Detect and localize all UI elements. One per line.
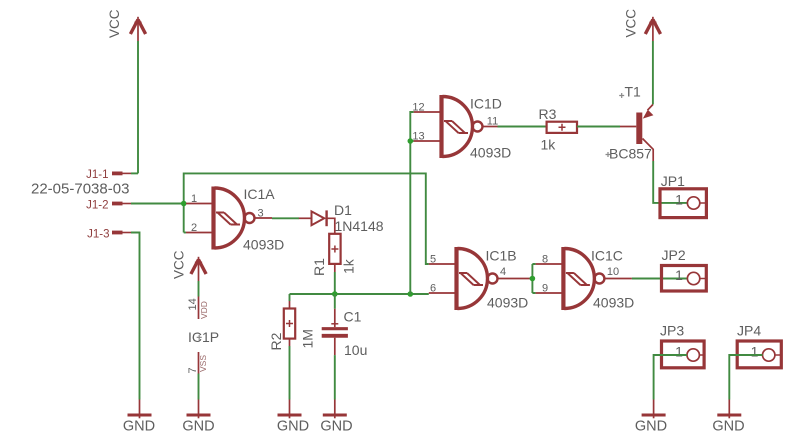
svg-text:GND: GND — [712, 419, 744, 435]
svg-text:1: 1 — [675, 267, 683, 283]
svg-text:T1: T1 — [625, 84, 642, 100]
wire node rail (R2/C1/IC1D/IC1B pin6) — [290, 293, 429, 295]
svg-text:JP2: JP2 — [662, 247, 686, 263]
svg-text:IC1P: IC1P — [188, 329, 219, 345]
wire R3 to T1 base — [577, 126, 620, 128]
svg-text:R3: R3 — [539, 106, 557, 122]
svg-text:GND: GND — [277, 419, 309, 435]
ground (JP3) — [635, 400, 667, 435]
connector JP3 — [660, 323, 705, 368]
wire R2 to GND — [289, 346, 291, 400]
svg-text:GND: GND — [182, 419, 214, 435]
ground (J1-3) — [123, 400, 155, 435]
wire VCC to IC1P pin 14 — [198, 281, 200, 297]
node junction at IC1D column — [408, 291, 414, 297]
op-amp? no: NAND gate IC1A — [186, 186, 284, 253]
svg-text:14: 14 — [187, 298, 199, 310]
node junction at C1/R1 — [332, 291, 338, 297]
wire JP4 to GND — [729, 355, 762, 400]
wire feedback rail to IC1B pin 5 — [184, 173, 429, 264]
svg-text:5: 5 — [430, 254, 436, 266]
wire C1 to GND — [334, 355, 336, 399]
wire IC1B out to IC1C inputs — [530, 264, 536, 293]
wire IC1C out to JP2 — [632, 278, 688, 280]
svg-text:13: 13 — [412, 131, 424, 143]
svg-text:J1-3: J1-3 — [87, 228, 109, 240]
diode D1 — [299, 202, 384, 234]
svg-text:GND: GND — [635, 419, 667, 435]
node junction J1-2/IC1A — [181, 201, 187, 207]
wire T1 collector to JP1 — [653, 161, 687, 203]
wire IC1A out to D1 — [272, 217, 299, 219]
connector pin J1-2 — [86, 199, 131, 211]
wire IC1D inputs column — [410, 112, 413, 294]
connector pin J1-3 — [87, 228, 131, 240]
wire IC1A pin2 stub join — [184, 232, 186, 234]
svg-text:VSS: VSS — [198, 355, 208, 372]
svg-text:JP1: JP1 — [661, 173, 685, 189]
ground (C1) — [320, 400, 352, 435]
resistor R1 — [311, 234, 357, 276]
svg-text:22-05-7038-03: 22-05-7038-03 — [31, 181, 129, 198]
svg-text:IC1C: IC1C — [591, 248, 623, 264]
svg-text:R2: R2 — [268, 332, 284, 350]
connector JP1 — [660, 173, 706, 218]
capacitor C1 (polarized) — [322, 309, 368, 359]
svg-text:1M: 1M — [300, 329, 316, 348]
supply VCC (IC1P power) — [172, 250, 207, 281]
ground (IC1P) — [182, 400, 214, 435]
wire R1 to node — [334, 272, 336, 294]
wire J1-3 to GND — [131, 233, 140, 400]
wire node to R2 — [289, 294, 291, 301]
supply VCC (right, T1 emitter) — [624, 9, 661, 41]
wire J1-2 to IC1A inputs — [131, 203, 184, 205]
svg-text:GND: GND — [123, 419, 155, 435]
wire node to C1 — [334, 294, 336, 309]
svg-text:IC1B: IC1B — [486, 248, 517, 264]
svg-text:VDD: VDD — [199, 301, 209, 319]
svg-text:JP3: JP3 — [660, 323, 684, 339]
svg-text:4093D: 4093D — [470, 145, 511, 161]
svg-text:1: 1 — [751, 344, 759, 360]
svg-text:1k: 1k — [541, 137, 557, 153]
svg-text:J1-2: J1-2 — [86, 199, 108, 211]
resistor R2 — [268, 301, 316, 351]
supply VCC (left, net to J1-1) — [107, 9, 146, 41]
svg-text:4: 4 — [500, 266, 506, 278]
svg-text:R1: R1 — [311, 258, 327, 276]
connector JP4 — [737, 323, 781, 368]
svg-text:JP4: JP4 — [737, 323, 761, 339]
svg-text:8: 8 — [542, 254, 548, 266]
svg-text:1N4148: 1N4148 — [335, 218, 384, 234]
svg-text:12: 12 — [412, 102, 424, 114]
NAND gate IC1C — [536, 247, 635, 311]
svg-text:1: 1 — [675, 192, 683, 208]
ground (JP4) — [712, 400, 744, 435]
svg-text:1: 1 — [675, 344, 683, 360]
svg-text:C1: C1 — [344, 309, 362, 325]
wire IC1P pin7 to GND — [198, 374, 200, 400]
svg-text:IC1A: IC1A — [244, 186, 276, 202]
svg-text:2: 2 — [191, 222, 197, 234]
wire JP3 to GND — [654, 355, 687, 400]
wire J1-1 to VCC — [131, 172, 138, 174]
svg-text:10u: 10u — [344, 342, 367, 358]
wire IC1D out to R3 — [498, 126, 547, 128]
NAND gate IC1D — [412, 95, 511, 161]
NAND gate IC1B — [429, 247, 530, 311]
svg-text:10: 10 — [607, 266, 619, 278]
connector JP2 — [662, 247, 707, 291]
svg-text:4093D: 4093D — [487, 295, 528, 311]
resistor R3 — [539, 106, 578, 153]
svg-text:VCC: VCC — [107, 9, 122, 38]
ground (R2) — [277, 400, 309, 435]
transistor T1 (PNP BC857) — [606, 84, 654, 162]
svg-text:VCC: VCC — [172, 250, 187, 279]
node junction IC1B/IC1C — [530, 276, 536, 282]
node junction at IC1D pin13 — [408, 138, 414, 144]
svg-text:D1: D1 — [334, 202, 352, 218]
svg-text:VCC: VCC — [624, 9, 639, 38]
svg-text:GND: GND — [320, 419, 352, 435]
svg-text:BC857: BC857 — [609, 146, 652, 162]
connector pin J1-1 — [86, 169, 131, 181]
svg-text:4093D: 4093D — [243, 237, 284, 253]
svg-text:6: 6 — [430, 283, 436, 295]
svg-text:1: 1 — [191, 193, 197, 205]
IC power part IC1P — [187, 297, 219, 374]
svg-text:IC1D: IC1D — [470, 96, 502, 112]
wire VCC to J1-1 — [137, 41, 139, 173]
wire VCC to T1 emitter — [652, 41, 654, 105]
svg-text:4093D: 4093D — [593, 295, 634, 311]
svg-text:J1-1: J1-1 — [86, 169, 108, 181]
svg-text:1k: 1k — [341, 258, 357, 274]
svg-text:9: 9 — [542, 283, 548, 295]
